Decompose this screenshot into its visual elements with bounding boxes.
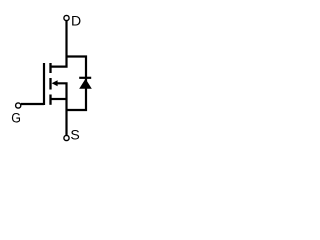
svg-text:G: G [11, 110, 21, 126]
svg-text:D: D [71, 13, 81, 29]
svg-text:S: S [70, 127, 79, 143]
